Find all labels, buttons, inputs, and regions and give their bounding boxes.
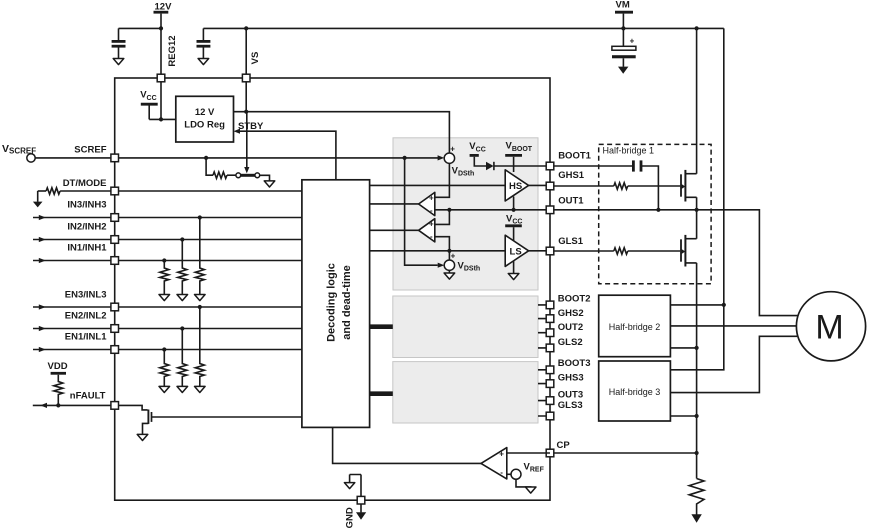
junction SCREF/divider [204,156,208,160]
junction EN1 pulldown [162,347,166,351]
wire IN3 internal [119,217,302,219]
junction EN2 pulldown [180,326,184,330]
ground R-EN2 [177,386,188,392]
svg-text:Half-bridge 3: Half-bridge 3 [609,387,661,397]
ground Q1 [137,434,148,440]
svg-text:STBY: STBY [238,121,264,132]
wire 12V to C1 [119,27,162,29]
input arrow EN1/INL1 [33,349,111,351]
IC boundary box [115,78,550,500]
junction VS internal [244,110,248,114]
pin GND [357,496,365,504]
junction EN3 pulldown [198,305,202,309]
svg-text:nFAULT: nFAULT [70,390,106,401]
svg-text:OUT1: OUT1 [558,195,584,206]
junction VDD/nFAULT [56,403,60,407]
wire CP row [554,452,697,454]
gate driver block 1 (grey) [393,138,538,290]
svg-text:-: - [430,206,433,215]
ground LS [508,274,519,280]
source VREF [507,473,511,475]
wire VCC stub to LS amp [513,227,515,241]
block U2: 12V LDO regulator [176,96,234,142]
wire I2 to ground [448,270,450,273]
ground DT/MODE [37,191,39,202]
junction HS/OUT1 [511,208,515,212]
svg-text:GLS3: GLS3 [558,400,583,411]
wire VS rail (top) [203,27,723,29]
svg-text:EN2/INL2: EN2/INL2 [65,310,107,321]
resistor R-GHS1 [614,183,628,189]
bus decoding to driver 3 [370,391,393,396]
svg-text:GLS2: GLS2 [558,337,583,348]
resistor R-CP (sense) [689,479,704,515]
comparator A2 [419,219,435,242]
ground R-EN1 [159,386,170,392]
wire 12V stub to REG12 pin [160,14,162,75]
svg-text:GHS2: GHS2 [558,308,584,319]
ground switch [264,181,275,187]
block: Half-bridge 2 [599,295,671,357]
wire M2 source to ground rail [685,263,696,479]
svg-text:CP: CP [557,440,571,451]
svg-text:EN3/INL3: EN3/INL3 [65,289,107,300]
capacitor C4 bootstrap [632,160,635,171]
svg-text:VM: VM [616,0,630,11]
wire comparator A1 output to decoding [370,203,419,205]
svg-text:-: - [500,468,503,477]
block: decoding logic and dead-time [302,180,370,428]
ground R-IN2 [177,295,188,301]
wire VM stub [622,14,624,47]
wire op-amp plus to CP pin [507,452,550,454]
wire C4 to OUT1 node [642,166,658,210]
svg-text:+: + [429,193,434,202]
bus decoding to driver 2 [370,324,393,329]
svg-text:LS: LS [510,246,522,257]
resistor R-IN3 pulldown [195,218,204,295]
wire nFAULT internal to Q1 drain [119,405,148,410]
wire R to M2 gate [628,250,680,252]
wire LS bottom to ground [513,261,515,274]
wire DT/MODE internal [119,190,302,192]
ground R-EN3 [195,386,206,392]
junction REG12/VCC [159,117,163,121]
diode D1 [486,162,494,170]
svg-text:+: + [499,449,504,458]
op-amp U3 (VREF comparator) [481,448,507,479]
signal STBY [234,129,241,134]
wire A2 minus input to I2 [435,237,450,260]
wire op-amp output to decoding block [333,427,481,463]
wire IN2 internal [119,239,302,241]
wire EN1 internal [119,349,302,351]
pin REG12 [157,74,165,82]
wire HB2 source to ground rail [670,347,696,349]
svg-text:GND: GND [345,507,356,528]
resistor R-IN1 pulldown [160,261,169,295]
wire R to M1 gate [628,185,680,187]
svg-text:-: - [430,232,433,241]
wire M1 source to phase node [685,197,696,238]
wire SCREF branch to lower VDSth source [405,158,438,265]
output arrow nFAULT [33,404,111,406]
junction A1-/A2+ [447,208,451,212]
wire comparator A2 output to decoding [370,229,419,231]
capacitor C2 [202,28,204,40]
svg-text:VS: VS [250,52,261,65]
ground C2 [198,59,209,65]
wire HS bottom to OUT1 row [513,197,515,210]
svg-text:GLS1: GLS1 [558,236,584,247]
wire half-bridge2 VM pin [670,304,723,306]
wire EN2 internal [119,328,302,330]
wire IN1 internal [119,260,302,262]
svg-text:GHS3: GHS3 [558,373,584,384]
wire M1 drain [685,173,696,175]
capacitor C1 [118,28,120,40]
wire HS output to GHS1 [529,184,550,186]
resistor R-EN2 pulldown [178,329,187,387]
svg-text:Half-bridge 2: Half-bridge 2 [609,322,661,332]
junction SCREF branch to lower VDSth [403,156,407,160]
junction A2-/LS row [447,249,451,253]
wire Q1 gate [152,416,302,418]
junction HB2/ground rail [695,346,699,350]
gate driver block 3 (grey) [393,362,538,423]
ground C1 [113,59,124,65]
resistor R-IN2 pulldown [178,240,187,295]
wire resistor to switch [227,174,236,176]
ground R-CP (power) [691,514,701,522]
junction CP/ground rail [695,451,699,455]
junction IN3 pulldown [198,215,202,219]
switch S1 [236,173,241,178]
svg-text:EN1/INL1: EN1/INL1 [65,331,107,342]
wire VBOOT stub to HS amp [513,157,515,172]
wire Q1 source [143,423,149,434]
svg-text:SCREF: SCREF [74,144,106,155]
svg-text:+: + [450,145,455,154]
ground R-IN1 [159,295,170,301]
svg-text:LDO Reg: LDO Reg [184,119,225,130]
wire EN3 internal [119,306,302,308]
wire M2 drain [685,238,696,240]
amp HS [505,170,528,201]
input arrow IN1/INH1 [33,260,111,262]
svg-text:and dead-time: and dead-time [341,265,353,340]
input arrow IN3/INH3 [33,217,111,219]
svg-text:Decoding logic: Decoding logic [326,263,338,342]
transistor M2 (low side) [680,239,682,261]
wire VS internal [245,82,247,112]
transistor Q1 (fault open-drain) [147,410,149,424]
svg-text:IN2/INH2: IN2/INH2 [67,221,106,232]
current source I2 (VDSth bottom) [438,263,445,268]
wire A1 plus input to I1 [435,163,450,197]
resistor R-EN1 pulldown [160,350,169,387]
svg-text:+: + [429,220,434,229]
transistor M1 (high side) [680,174,682,196]
junction C4/OUT1 [656,208,660,212]
comparator A1 [419,192,435,215]
wire BOOT1 to bootstrap cap [554,165,633,167]
junction VM rail / HB2 [722,303,726,307]
stub driver3 to pins [538,370,550,416]
wire REG12 internal [160,82,162,120]
wire VS to standby switch (arrow) [246,112,248,167]
dashed box Half-bridge 1 [599,144,711,283]
junction VS rail / VS pin [244,26,248,30]
resistor R-VDD pullup [54,375,63,406]
wire HB2 phase to motor [670,325,796,327]
wire HB3 phase to motor [670,336,797,392]
input arrow IN2/INH2 [33,239,111,241]
wire GHS1 to gate resistor [554,185,614,187]
block: Half-bridge 3 [599,361,671,421]
ground GND (power) [356,512,366,520]
wire LS output to GLS1 [529,250,550,252]
ground I2 [444,273,455,279]
ground C3 (power) [618,67,628,74]
wire switch to ground [260,175,270,181]
wire DT/MODE to pin [60,190,111,192]
stub driver2 to pins [538,305,550,348]
motor M [796,292,865,361]
resistor R-SCREF [213,172,227,178]
wire SCREF internal to VDSth sources [119,157,439,159]
junction HB3/ground rail [695,414,699,418]
svg-text:BOOT2: BOOT2 [558,294,591,305]
junction IN2 pulldown [180,237,184,241]
wire SCREF divider drop [206,158,213,175]
svg-text:VDD: VDD [48,361,68,372]
svg-text:+: + [630,37,635,46]
junction IN1 pulldown [162,258,166,262]
svg-text:12 V: 12 V [195,107,215,118]
wire VCC to diode [474,157,486,166]
wire LDO input / VDSth supply [234,112,450,153]
input arrow EN2/INL2 [33,328,111,330]
svg-text:HS: HS [509,181,522,192]
ground R-IN3 [195,295,206,301]
wire A2 plus input [435,210,450,225]
svg-text:BOOT1: BOOT1 [558,150,591,161]
svg-text:Half-bridge 1: Half-bridge 1 [603,145,655,155]
svg-text:M: M [815,309,843,347]
svg-text:IN1/INH1: IN1/INH1 [67,243,107,254]
svg-text:DT/MODE: DT/MODE [63,178,107,189]
svg-text:GHS1: GHS1 [558,170,585,181]
wire decoding to HS amp input [370,184,506,186]
wire VCC to LDO [149,105,176,119]
gate driver block 2 (grey) [393,296,538,358]
svg-text:+: + [451,252,456,261]
wire VREF to ground [516,479,531,487]
wire VM rail right [670,28,723,369]
wire OUT1 external to motor [554,210,799,316]
wire GND external [360,504,362,512]
wire OUT1 row internal (A1 minus) [435,209,550,211]
wire DT/MODE to resistor [38,190,46,192]
junction VM rail [621,26,625,30]
input arrow EN3/INL3 [33,306,111,308]
ground internal (GND hook) [350,475,361,497]
resistor R-DT [46,188,60,194]
svg-text:IN3/INH3: IN3/INH3 [67,200,106,211]
svg-text:BOOT3: BOOT3 [558,358,591,369]
wire VSCREF to SCREF pin [35,157,111,159]
ground VREF [525,487,536,493]
amp LS [505,235,528,266]
junction 12V/C1 [159,26,163,30]
wire VS stub [245,28,247,74]
svg-text:OUT2: OUT2 [558,322,583,333]
wire HB3 source to ground rail [670,415,696,417]
resistor R-EN3 pulldown [195,307,204,386]
wire VM to M1 drain [696,28,698,173]
wire diode to BOOT1 [494,165,550,167]
svg-text:REG12: REG12 [167,35,178,66]
resistor R-GLS1 [614,248,628,254]
wire decoding to LS amp input [370,250,506,252]
pin VS [242,74,250,82]
current source I1 (VDSth top) [438,155,445,160]
junction phase/OUT1 [695,208,699,212]
wire GLS1 to gate resistor [554,250,614,252]
junction VM rail / drain rail [695,26,699,30]
